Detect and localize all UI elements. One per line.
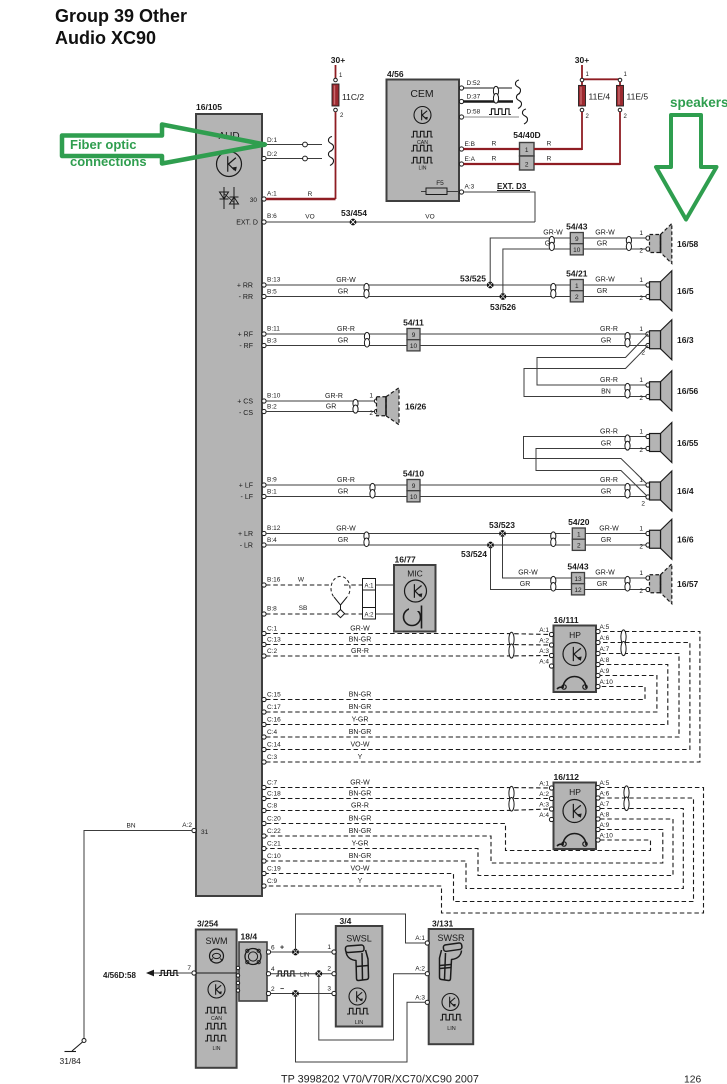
svg-text:C:20: C:20 — [267, 816, 281, 823]
svg-text:BN-GR: BN-GR — [349, 791, 372, 798]
pin A:2 of 16/111 — [549, 643, 553, 647]
svg-text:LIN: LIN — [418, 166, 426, 172]
svg-text:2: 2 — [369, 410, 373, 417]
svg-text:53/526: 53/526 — [490, 302, 516, 312]
wire GR-W B:13 — [266, 284, 570, 286]
svg-text:GR: GR — [601, 537, 612, 544]
svg-text:16/111: 16/111 — [554, 615, 579, 625]
svg-text:VO-W: VO-W — [350, 866, 369, 873]
wire GR-W to 16/57 — [503, 534, 649, 579]
svg-text:- LF: - LF — [241, 494, 253, 501]
twisted pair 16/112 input — [509, 786, 514, 800]
pin 2 of 16/5 — [646, 294, 650, 298]
svg-text:LIN: LIN — [212, 1046, 220, 1052]
svg-text:53/525: 53/525 — [460, 274, 486, 284]
svg-text:connections: connections — [70, 154, 147, 169]
SWSR wave — [440, 1014, 462, 1020]
svg-text:9: 9 — [412, 483, 416, 490]
wire return 16/112 via x=693.5 — [266, 798, 694, 902]
svg-text:BN-GR: BN-GR — [349, 853, 372, 860]
svg-text:C:19: C:19 — [267, 866, 281, 873]
connector 54/40D cell 1 — [520, 143, 535, 157]
wire - to SWSL pin3 — [271, 993, 335, 995]
speaker 16/57 dashed — [661, 564, 672, 604]
pin B:13 of 16/105 — [262, 283, 266, 287]
svg-text:C:9: C:9 — [267, 878, 278, 885]
wire fuse 11E/5 down — [619, 112, 621, 165]
wire GR B:1 — [266, 496, 648, 498]
svg-text:- LR: - LR — [240, 543, 253, 550]
svg-text:1: 1 — [369, 393, 373, 400]
svg-text:A:5: A:5 — [600, 624, 610, 631]
svg-text:- CS: - CS — [239, 410, 253, 417]
headphone symbol 16/111 — [563, 677, 586, 689]
pin C:8 of 16/105 — [262, 808, 266, 812]
svg-text:31: 31 — [201, 829, 209, 836]
svg-text:53/454: 53/454 — [341, 208, 367, 218]
svg-text:1: 1 — [639, 570, 643, 577]
svg-text:16/77: 16/77 — [395, 555, 417, 565]
svg-text:18/4: 18/4 — [241, 932, 258, 942]
svg-text:CEM: CEM — [410, 88, 433, 100]
wire A:1 to MIC — [376, 584, 395, 586]
svg-text:D:1: D:1 — [267, 137, 278, 144]
svg-text:SWSL: SWSL — [346, 934, 372, 944]
connector 54/40D cell 2 — [520, 156, 535, 170]
svg-text:GR-W: GR-W — [336, 526, 356, 533]
svg-text:7: 7 — [187, 965, 191, 972]
svg-text:2: 2 — [639, 588, 643, 595]
svg-text:16/58: 16/58 — [677, 239, 699, 249]
pin A:3 of 16/111 — [549, 653, 553, 657]
pin A:8 of 16/112 — [596, 817, 600, 821]
pin A:1 of 16/111 — [549, 632, 553, 636]
wire VO from B:6 — [266, 221, 535, 223]
steering wheel symbol — [210, 949, 224, 963]
svg-text:+ CS: + CS — [237, 399, 253, 406]
wire C:8 to 16/112 — [266, 809, 550, 811]
shield diamond — [336, 609, 344, 617]
pin C:17 of 16/105 — [262, 710, 266, 714]
speaker 16/58 dashed — [661, 224, 672, 264]
pin 1 of 16/4 — [646, 483, 650, 487]
pin 6 of 18/4 — [266, 950, 270, 954]
svg-text:SB: SB — [299, 605, 308, 612]
svg-text:3: 3 — [327, 986, 331, 993]
svg-text:54/20: 54/20 — [568, 517, 590, 527]
svg-text:A:3: A:3 — [539, 802, 549, 809]
svg-text:A:5: A:5 — [600, 780, 610, 787]
pin C:19 of 16/105 — [262, 871, 266, 875]
pin E:A of CEM — [459, 162, 463, 166]
pin E:B of CEM — [459, 147, 463, 151]
speaker 16/26 dashed — [386, 388, 399, 425]
junction on + wire — [292, 949, 299, 956]
SWM control-unit symbol — [208, 981, 225, 998]
pin 2 of 16/6 — [646, 543, 650, 547]
svg-text:GR: GR — [597, 241, 608, 248]
svg-text:2: 2 — [639, 295, 643, 302]
svg-text:30+: 30+ — [331, 55, 345, 65]
pin left of 18/4 y=975.5 — [236, 974, 239, 977]
twisted pair 16/57 left — [551, 576, 556, 585]
pin B:4 of 16/105 — [262, 543, 266, 547]
wire R E:A to 54/40D — [464, 163, 520, 165]
twisted pair LF — [370, 483, 375, 492]
svg-text:W: W — [298, 577, 305, 584]
speaker 16/3 — [661, 320, 672, 360]
wire W B:16 dashed — [266, 584, 331, 586]
svg-text:16/55: 16/55 — [677, 438, 699, 448]
svg-text:speakers: speakers — [670, 95, 727, 110]
wire D:52 — [464, 87, 513, 89]
svg-text:A:1: A:1 — [364, 584, 374, 590]
wire return 16/111 via x=699.9 — [266, 632, 700, 763]
svg-text:EXT. D: EXT. D — [236, 220, 258, 227]
switch SWSL 3/4 box — [336, 926, 383, 1027]
CEM LIN wave symbol — [411, 157, 433, 163]
steering module 3/254 box — [196, 930, 237, 1068]
pin 3 of SWSL — [332, 991, 336, 995]
svg-text:54/43: 54/43 — [567, 562, 589, 572]
pin 2 of 16/56 — [646, 394, 650, 398]
svg-text:53/523: 53/523 — [489, 520, 515, 530]
SWSR lever symbol — [440, 943, 463, 981]
pin A:2 of 16/105 left — [192, 828, 196, 832]
junction 53/523 — [499, 530, 506, 537]
pin 2 of 16/58 — [646, 247, 650, 251]
pin C:1 of 16/105 — [262, 631, 266, 635]
svg-text:11E/4: 11E/4 — [589, 92, 611, 102]
svg-text:Y-GR: Y-GR — [352, 841, 369, 848]
svg-text:GR: GR — [601, 489, 612, 496]
svg-text:B:4: B:4 — [267, 537, 277, 544]
svg-text:B:2: B:2 — [267, 404, 277, 411]
pin B:2 of 16/105 — [262, 409, 266, 413]
svg-text:10: 10 — [410, 343, 418, 350]
speaker 16/56 — [661, 371, 672, 411]
16/112 control-unit symbol — [563, 800, 586, 823]
pin 2 of 16/55 — [646, 446, 650, 450]
svg-text:11C/2: 11C/2 — [342, 92, 364, 102]
svg-text:54/43: 54/43 — [566, 222, 588, 232]
SWSL control-unit symbol — [349, 988, 366, 1005]
wire 30+ branch — [582, 65, 620, 79]
svg-text:54/21: 54/21 — [566, 269, 588, 279]
pin D:52 of CEM — [459, 86, 463, 90]
svg-text:GR: GR — [597, 288, 608, 295]
svg-text:1: 1 — [639, 377, 643, 384]
svg-text:GR-W: GR-W — [599, 526, 619, 533]
svg-text:BN-GR: BN-GR — [349, 692, 372, 699]
pin C:20 of 16/105 — [262, 821, 266, 825]
svg-text:2: 2 — [639, 447, 643, 454]
SWM wave 2 — [205, 1023, 227, 1029]
svg-text:D:58: D:58 — [467, 109, 481, 116]
svg-text:GR-R: GR-R — [600, 377, 618, 384]
pin A:8 of 16/111 — [596, 662, 600, 666]
wire C:1 to 16/111 — [266, 634, 550, 635]
control unit 4/56 CEM box — [387, 80, 460, 202]
ground connection 31/84 — [82, 1039, 86, 1043]
svg-text:GR-W: GR-W — [350, 626, 370, 633]
svg-text:2: 2 — [577, 543, 581, 550]
pin A:9 of 16/111 — [596, 673, 600, 677]
svg-text:C:1: C:1 — [267, 626, 278, 633]
pin 2 of 11C/2 — [334, 108, 338, 112]
svg-text:A:6: A:6 — [600, 791, 610, 798]
svg-text:4: 4 — [271, 966, 275, 973]
svg-text:GR-R: GR-R — [325, 393, 343, 400]
svg-text:A:7: A:7 — [600, 646, 610, 653]
wire R 54/40D-2 to fuse 11E/5 — [534, 163, 620, 165]
pin 2 of 18/4 — [266, 991, 270, 995]
microphone symbol — [404, 609, 421, 626]
svg-text:GR-W: GR-W — [595, 570, 615, 577]
svg-text:2: 2 — [575, 294, 579, 301]
wire GR to 16/58 — [503, 249, 648, 297]
svg-text:2: 2 — [525, 162, 529, 169]
svg-text:16/56: 16/56 — [677, 386, 699, 396]
svg-text:BN: BN — [601, 389, 611, 396]
svg-text:- RR: - RR — [239, 294, 253, 301]
CEM wave symbol 2 — [411, 145, 433, 151]
fuse 11C/2 — [332, 84, 339, 106]
svg-text:1: 1 — [639, 429, 643, 436]
pin C:18 of 16/105 — [262, 796, 266, 800]
pin 4 of 18/4 — [266, 972, 270, 976]
svg-text:C:18: C:18 — [267, 791, 281, 798]
svg-text:A:10: A:10 — [600, 679, 614, 686]
control unit 16/105 AUD box — [196, 114, 262, 896]
pin B:8 of 16/105 — [262, 612, 266, 616]
svg-text:R: R — [308, 191, 313, 198]
pin D:1 of 16/105 — [262, 142, 266, 146]
wire C:7 to 16/112 — [266, 787, 550, 790]
svg-text:C:15: C:15 — [267, 692, 281, 699]
svg-text:2: 2 — [641, 501, 645, 508]
fiber optic wire D:1 — [266, 144, 322, 146]
speaker 16/55 — [661, 423, 672, 463]
pin B:9 of 16/105 — [262, 483, 266, 487]
svg-text:C:16: C:16 — [267, 717, 281, 724]
svg-text:VO: VO — [425, 214, 434, 221]
green arrow speakers — [656, 115, 717, 220]
SWM divider — [196, 972, 237, 974]
svg-text:A:6: A:6 — [600, 635, 610, 642]
svg-text:10: 10 — [410, 494, 418, 501]
svg-text:GR: GR — [601, 338, 612, 345]
mic shield symbol — [331, 576, 350, 596]
svg-text:GR: GR — [338, 489, 349, 496]
svg-text:1: 1 — [639, 526, 643, 533]
18/4 round connector symbol — [245, 949, 261, 965]
SWSL lever symbol — [345, 945, 368, 981]
twisted pair 16/6 — [551, 532, 556, 541]
pin 2 of 16/26 — [374, 409, 378, 413]
SWSR control-unit symbol — [442, 994, 459, 1011]
pin B:6 of 16/105 — [262, 220, 266, 224]
svg-text:GR: GR — [338, 289, 349, 296]
svg-text:R: R — [547, 156, 552, 163]
signal wave symbol on D:58 — [489, 109, 511, 115]
svg-text:Fiber optic: Fiber optic — [70, 137, 136, 152]
headphone unit 16/112 box — [554, 783, 597, 850]
microphone unit 16/77 box — [394, 565, 436, 632]
pin 1 of 16/3 — [646, 332, 650, 336]
svg-text:1: 1 — [525, 147, 529, 154]
pin C:4 of 16/105 — [262, 735, 266, 739]
twisted pair 16/112 output — [624, 786, 629, 800]
svg-text:GR-R: GR-R — [351, 803, 369, 810]
wire SB B:8 dashed — [266, 613, 337, 615]
pin A:10 of 16/111 — [596, 684, 600, 688]
pin B:1 of 16/105 — [262, 494, 266, 498]
wire GR B:3 — [266, 345, 648, 347]
pin C:22 of 16/105 — [262, 834, 266, 838]
pin B:3 of 16/105 — [262, 343, 266, 347]
svg-text:A:7: A:7 — [600, 801, 610, 808]
wire GR B:5 — [266, 296, 570, 298]
pin A:9 of 16/112 — [596, 827, 600, 831]
svg-text:C:4: C:4 — [267, 729, 278, 736]
svg-text:GR: GR — [520, 581, 531, 588]
svg-text:16/26: 16/26 — [405, 402, 427, 412]
fuse 11E/4 — [579, 85, 586, 106]
twisted pair 16/111 output — [621, 630, 626, 644]
svg-text:10: 10 — [573, 247, 581, 254]
svg-text:B:6: B:6 — [267, 213, 277, 220]
svg-text:D:37: D:37 — [467, 94, 481, 101]
svg-text:B:8: B:8 — [267, 606, 277, 613]
wire A:3 EXT.D3 to VO — [464, 192, 536, 222]
pin 1 of 11E/5 — [618, 78, 622, 82]
pin C:3 of 16/105 — [262, 760, 266, 764]
svg-text:LIN: LIN — [355, 1020, 364, 1026]
svg-text:E:A: E:A — [465, 156, 476, 163]
svg-text:2: 2 — [639, 544, 643, 551]
svg-text:B:12: B:12 — [267, 525, 281, 532]
fiber optic wire D:2 — [266, 158, 322, 160]
svg-text:54/11: 54/11 — [403, 318, 424, 328]
svg-text:1: 1 — [639, 277, 643, 284]
svg-text:A:2: A:2 — [539, 638, 549, 645]
svg-text:A:9: A:9 — [600, 668, 610, 675]
svg-text:54/40D: 54/40D — [513, 130, 540, 140]
pin 2 of 16/3 — [646, 343, 650, 347]
svg-text:GR-W: GR-W — [543, 230, 563, 237]
twisted pair 16/111 input — [509, 632, 514, 646]
pin left of 18/4 y=968 — [236, 966, 239, 969]
wire return 16/111 via x=645 — [266, 687, 645, 700]
svg-text:GR-R: GR-R — [600, 429, 618, 436]
svg-text:SWSR: SWSR — [438, 933, 466, 943]
svg-text:A:1: A:1 — [539, 781, 549, 788]
svg-text:16/105: 16/105 — [196, 102, 222, 112]
twisted pair symbol D:52 D:37 — [493, 86, 498, 96]
svg-text:GR-R: GR-R — [600, 477, 618, 484]
pin C:2 of 16/105 — [262, 654, 266, 658]
wire 16/3 pin1 to 16/56 — [537, 334, 648, 385]
pin A:2 of 16/112 — [549, 796, 553, 800]
svg-text:30: 30 — [250, 197, 258, 204]
wire 16/3 pin2 to 16/56 — [524, 346, 648, 397]
svg-text:A:8: A:8 — [600, 657, 610, 664]
pin C:9 of 16/105 — [262, 884, 266, 888]
wire from shield to connector — [344, 584, 363, 586]
twisted pair 16/56 — [625, 383, 630, 392]
svg-text:A:3: A:3 — [539, 648, 549, 655]
svg-text:3/131: 3/131 — [432, 919, 454, 929]
connector cell A:2 mic — [363, 608, 376, 620]
wire return 16/111 via x=667.8 — [266, 665, 668, 725]
pin 2 of 11E/5 — [618, 108, 622, 112]
wire R 54/40D-1 to fuse 11E/4 — [534, 148, 582, 150]
pin A:3 of CEM — [459, 190, 463, 194]
svg-text:C:14: C:14 — [267, 742, 281, 749]
wire GR-W B:12 — [266, 533, 570, 535]
pin A:5 of 16/112 — [596, 785, 600, 789]
connector 18/4 box — [239, 942, 267, 1001]
svg-text:A:2: A:2 — [415, 966, 425, 973]
svg-text:A:2: A:2 — [182, 822, 192, 829]
svg-text:A:2: A:2 — [539, 791, 549, 798]
wire return 16/111 via x=656.9 — [266, 676, 657, 713]
wire return 16/112 via x=683.3 — [266, 809, 683, 889]
connector cell A:1 mic — [363, 579, 376, 620]
svg-text:A:2: A:2 — [364, 613, 374, 619]
svg-text:+: + — [280, 945, 284, 952]
wire + junction to SWSR A:1 — [296, 914, 426, 952]
wire GR-W to 16/6 — [585, 533, 648, 535]
svg-text:1: 1 — [577, 531, 581, 538]
junction on LIN wire — [315, 970, 322, 977]
svg-text:Audio XC90: Audio XC90 — [55, 28, 156, 48]
pin D:58 of CEM — [459, 115, 463, 119]
svg-text:LIN: LIN — [447, 1026, 456, 1032]
shield drain Y — [334, 597, 341, 611]
svg-text:C:7: C:7 — [267, 780, 278, 787]
headphone unit 16/111 box — [554, 626, 597, 693]
pin A:1 of SWSR — [425, 941, 429, 945]
MIC control-unit symbol — [405, 580, 427, 602]
pin 1 of 11E/4 — [580, 78, 584, 82]
wire fuse 11E/4 down — [581, 112, 583, 150]
pin C:21 of 16/105 — [262, 846, 266, 850]
pin 2 of 11E/4 — [580, 108, 584, 112]
svg-text:C:10: C:10 — [267, 853, 281, 860]
svg-text:B:5: B:5 — [267, 289, 277, 296]
svg-text:GR-R: GR-R — [351, 648, 369, 655]
svg-text:CAN: CAN — [211, 1016, 222, 1022]
pin D:37 of CEM — [459, 99, 463, 103]
svg-text:6: 6 — [271, 945, 275, 952]
wire C:2 to 16/111 — [266, 655, 550, 658]
wire LIN junction to SWSR A:2 — [319, 974, 426, 1040]
headphone symbol 16/112 — [563, 834, 586, 845]
pin A:5 of 16/111 — [596, 629, 600, 633]
wire 16/55 pin1 loop — [524, 437, 649, 486]
pin A:2 of SWSR — [425, 972, 429, 976]
pin 1 of 16/26 — [374, 399, 378, 403]
svg-text:BN-GR: BN-GR — [349, 729, 372, 736]
twisted pair 16/57 right — [625, 576, 630, 585]
wire + to SWSL pin1 — [271, 951, 335, 953]
svg-text:16/112: 16/112 — [554, 772, 580, 782]
svg-text:4/56D:58: 4/56D:58 — [103, 971, 136, 980]
pin A:10 of 16/112 — [596, 838, 600, 842]
pin left of 18/4 y=990.5 — [236, 989, 239, 992]
